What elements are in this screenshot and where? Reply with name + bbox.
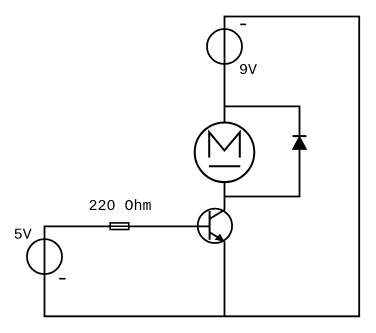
voltage source V1 9V xyxy=(207,29,242,64)
wire diode bottom branch xyxy=(225,196,301,198)
label V2 value 5V xyxy=(15,229,32,239)
wire left rail below V2 xyxy=(44,226,46,316)
resistor R1 220 Ohm xyxy=(110,223,129,230)
diode D1 xyxy=(293,136,307,149)
wire top rail from V1 to right side xyxy=(224,16,361,18)
label V1 minus xyxy=(240,23,246,25)
wire bottom rail xyxy=(44,315,361,317)
wire base: from V2 through R1 to Q1 base xyxy=(44,225,210,227)
label V1 value 9V xyxy=(240,64,257,74)
wire diode top branch xyxy=(225,105,301,107)
wire right rail xyxy=(358,17,360,317)
transistor Q1 NPN xyxy=(198,209,232,243)
label R1 value 220 Ohm xyxy=(90,199,151,210)
wire diode vertical xyxy=(299,106,301,196)
label V2 minus xyxy=(59,278,65,280)
voltage source V2 5V xyxy=(27,239,62,274)
wire main vertical: V1 through M1 to Q1 collector xyxy=(224,16,226,210)
motor M1 xyxy=(195,123,255,183)
wire emitter down from Q1 to bottom rail xyxy=(224,241,226,316)
